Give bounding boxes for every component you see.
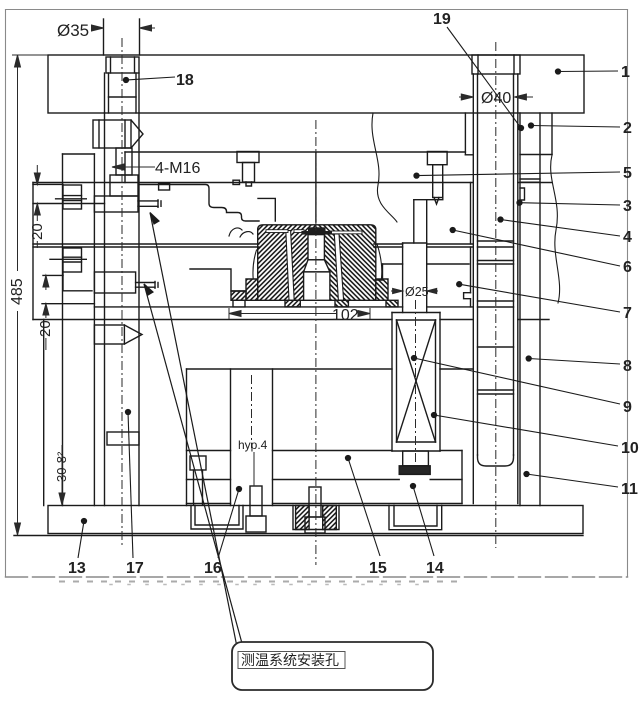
temp leader 2 [144,284,243,647]
hex nut on left pillar [93,120,131,148]
left pin hole lines through plate [103,19,105,55]
molded part white band top left [266,230,288,233]
core right flange curve [377,244,382,278]
callout 18 [126,77,175,80]
long leaders to label box [144,213,243,648]
svg-text:7: 7 [623,305,632,322]
spring X column part10 [391,313,393,452]
screw part5 left [237,152,259,163]
svg-text:hyp.4: hyp.4 [238,438,268,452]
svg-text:17: 17 [126,560,144,577]
callout 17 [128,412,133,558]
label box [232,642,433,690]
dim O40 [459,96,473,98]
svg-text:4: 4 [623,229,632,246]
svg-text:2: 2 [623,120,632,137]
dim O25 [391,290,403,292]
centerline spring column [415,300,417,465]
center insert white [304,272,330,300]
A plate right end block [470,183,472,245]
A plate top line [33,182,473,184]
right pin rounded bottom [478,455,514,466]
callout 11 [527,474,619,487]
right support pillar [519,113,521,506]
left guide pin 18 head [106,57,139,73]
left column verticals [62,154,64,506]
neck below nut [116,148,132,175]
callout 7 [459,284,620,312]
pocket step below left [190,269,246,291]
sprue funnel white [304,260,330,272]
return pin [402,243,404,313]
callout 3 [520,203,621,205]
border frame [6,10,628,585]
callout 5 [417,172,621,176]
core block outline [258,225,376,300]
B plate bottom line [94,306,402,308]
callout 19 [447,27,521,128]
callout 13 [78,521,84,558]
top plate part1 [48,55,584,113]
hatched core block body right half [316,225,376,300]
washer rect on A plate [159,183,170,190]
centerlines [122,38,496,565]
molded part white band right [334,234,343,300]
pillar bolt row A with sensor pin [94,196,138,212]
upper clamp plate line [125,151,465,153]
svg-text:9: 9 [623,399,632,416]
svg-text:30-8²: 30-8² [54,451,69,482]
svg-text:15: 15 [369,560,387,577]
callout 15 [348,458,380,556]
centerline right pin [495,42,497,548]
spring seat below [403,451,429,466]
svg-text:485: 485 [9,278,26,305]
sensor square in left foot [233,300,245,307]
right guide pin head [472,55,520,74]
dim O35 [95,27,104,29]
svg-text:14: 14 [426,560,444,577]
bottom plate slot S2 hatched pocket [293,506,339,530]
callout 9 [414,358,620,404]
callout 4 [501,220,621,237]
ejector plate bottom line [187,503,231,505]
sprue center line solid [315,152,317,222]
dim 20 lower [45,275,47,290]
pocket step below right [427,263,469,265]
molded part white band left [286,231,294,301]
callout 8 [529,359,620,365]
bolt A below column [250,486,262,516]
svg-text:20: 20 [37,320,54,337]
callout 6 [453,230,620,266]
dim 20 upper [36,165,38,184]
sprue bushing white [308,235,324,260]
svg-text:6: 6 [623,259,632,276]
svg-text:4-M16: 4-M16 [155,160,200,177]
svg-text:5: 5 [623,165,632,182]
molded part white band top right [330,231,362,234]
parting lines [33,243,259,245]
cavity stepped profile left [140,185,259,222]
hatched left foot [246,279,258,300]
support plate top line [33,319,392,321]
dim 485 vertical [17,55,19,271]
callout 16 [218,489,239,558]
4-M16 leader [112,166,155,168]
svg-text:1: 1 [621,64,630,81]
left pillar bottom block 17 [107,432,139,445]
svg-text:Ø35: Ø35 [57,21,89,40]
svg-text:10: 10 [621,440,639,457]
callout 2 [531,126,620,128]
support plate bottom line [187,368,393,370]
bolt B center [309,487,321,517]
svg-text:11: 11 [621,481,638,498]
svg-text:18: 18 [176,72,194,89]
sprue bushing hat dark [308,227,326,231]
svg-text:16: 16 [204,560,222,577]
break line curve right [551,155,560,303]
left pillar body [104,113,106,506]
clamp bolt head A on left column [63,185,82,209]
svg-text:3: 3 [623,198,632,215]
core left flange curve [253,250,257,279]
svg-text:102: 102 [332,307,359,324]
callout 14 [413,486,434,556]
small hatched feet below core [285,300,300,307]
svg-text:8: 8 [623,358,632,375]
right pin division lines [478,240,514,242]
clamp bolt head B on left column [63,248,82,272]
ground line [14,535,583,537]
centerline ejector column [251,375,253,448]
svg-text:20: 20 [29,223,46,240]
svg-text:测温系统安装孔: 测温系统安装孔 [241,652,339,668]
bottom plate slot S3 [389,506,442,530]
break line curve center [372,113,397,222]
callout 1 [558,70,618,73]
temp leader 1 [150,213,237,648]
pillar bolt row B with sensor pin [94,272,135,293]
dimensions [12,25,533,535]
dim 30-82 [61,445,63,505]
svg-text:Ø25: Ø25 [405,285,429,299]
bottom plate slot S1 [191,506,243,530]
center ejector column [230,369,232,506]
cavity step right [414,183,443,200]
callout 10 [434,415,618,446]
hatched core block body left half [258,225,316,300]
ejector plate mid line [187,479,231,481]
centerline left pillar [121,38,123,545]
callout leader lines [78,27,620,558]
B plate right end block [470,247,472,293]
ejector plate top line [187,450,231,452]
centerline main mold [315,120,317,565]
bolt at ejector left end [190,456,206,470]
svg-text:19: 19 [433,11,451,28]
dim 102 [229,313,336,315]
hyp4 leader [253,452,255,486]
spring retainer dark bar [399,466,430,475]
callout numbers [68,11,639,577]
bottom plate part13 [48,506,583,534]
hatched right foot [376,279,388,300]
pillar bolt row C cone bolt [94,325,124,344]
dimension texts [9,21,511,482]
svg-text:Ø40: Ø40 [481,90,511,107]
screw part5 right [427,152,447,165]
molded part curls left of core [229,228,242,236]
svg-text:13: 13 [68,560,86,577]
